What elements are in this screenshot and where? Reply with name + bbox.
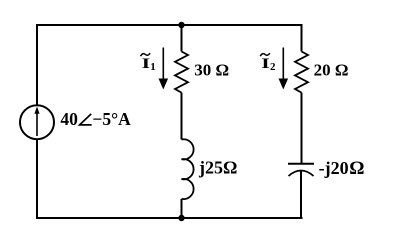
- svg-text:1: 1: [150, 61, 156, 73]
- svg-text:40: 40: [60, 109, 78, 129]
- svg-text:30 Ω: 30 Ω: [194, 61, 229, 80]
- svg-text:I: I: [261, 55, 269, 72]
- svg-text:20 Ω: 20 Ω: [314, 60, 349, 79]
- svg-text:-j20: -j20: [319, 158, 349, 178]
- svg-text:j25Ω: j25Ω: [198, 158, 237, 178]
- svg-text:−5°A: −5°A: [92, 109, 131, 129]
- svg-text:2: 2: [270, 61, 276, 73]
- svg-text:I: I: [142, 55, 150, 72]
- svg-text:Ω: Ω: [349, 158, 364, 179]
